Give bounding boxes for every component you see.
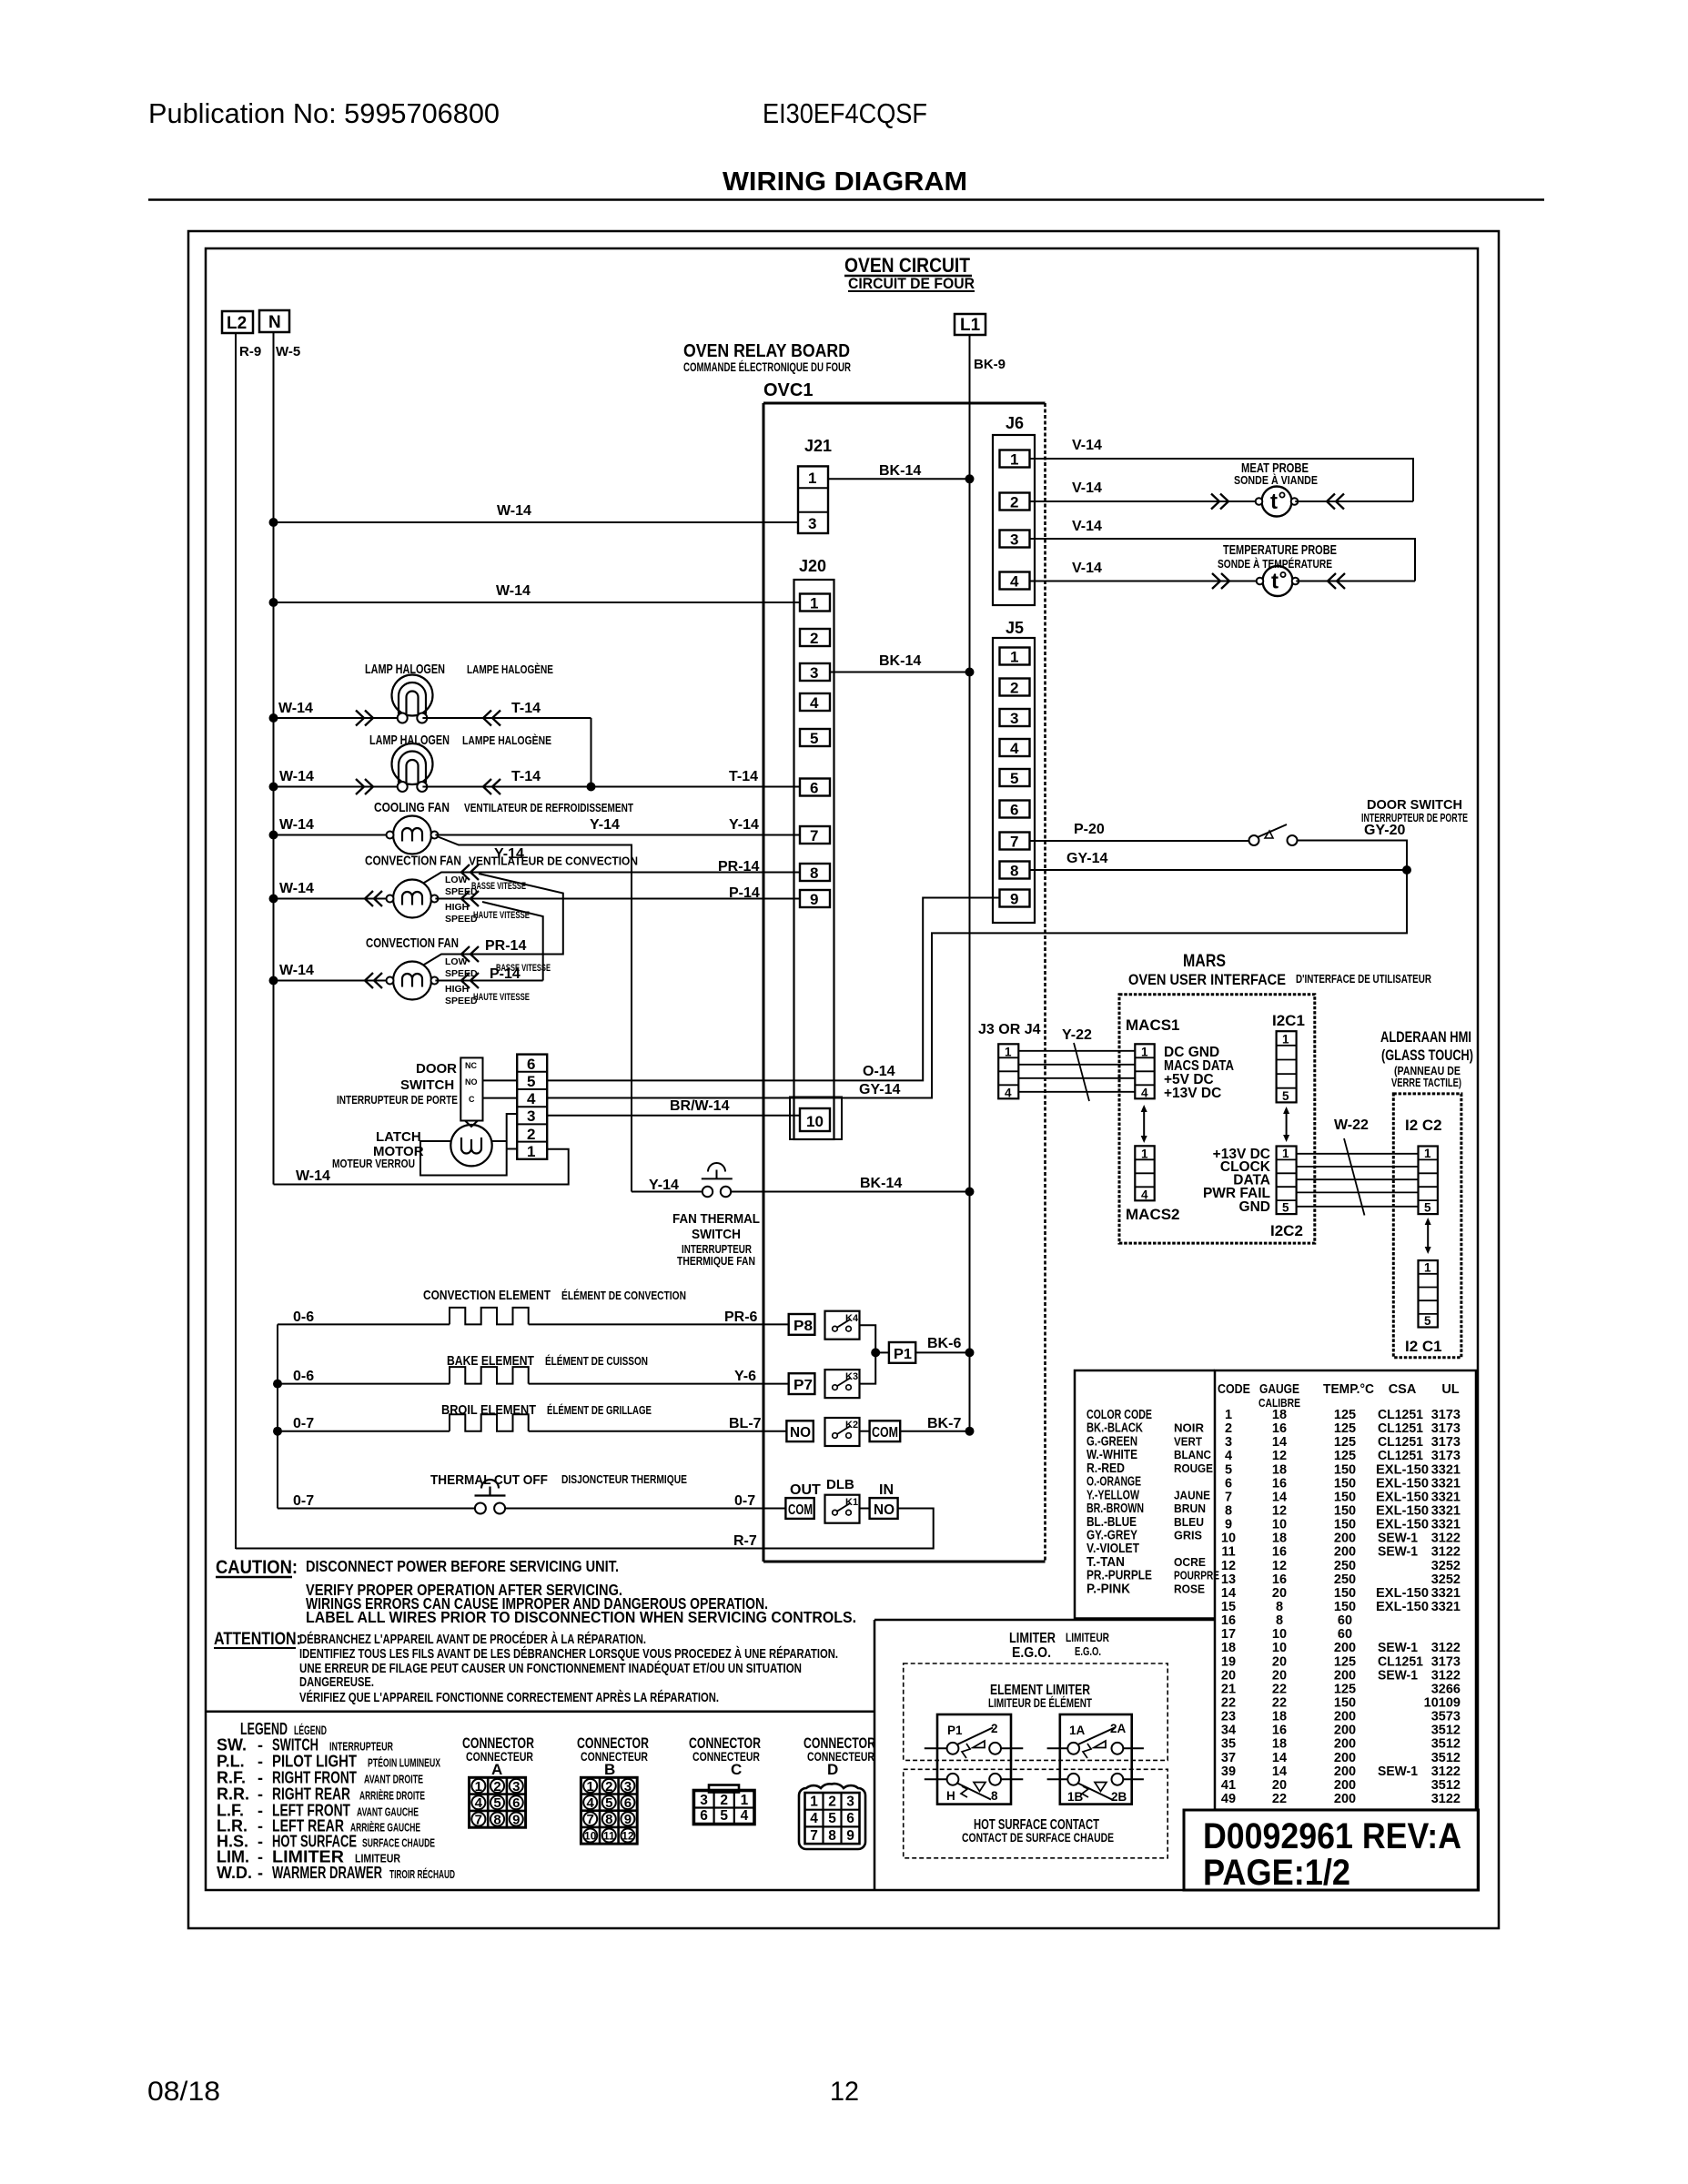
connector B	[577, 1734, 649, 1844]
svg-text:P1: P1	[947, 1724, 963, 1737]
connector J3/J4	[998, 1044, 1018, 1099]
svg-text:10109: 10109	[1424, 1696, 1461, 1711]
svg-text:K2: K2	[845, 1420, 858, 1431]
svg-text:3: 3	[527, 1107, 535, 1125]
svg-text:LIMITER: LIMITER	[1009, 1631, 1056, 1646]
svg-text:CAUTION:: CAUTION:	[216, 1557, 298, 1578]
svg-text:8: 8	[1225, 1504, 1232, 1519]
svg-text:ROUGE: ROUGE	[1174, 1462, 1213, 1475]
svg-text:Y-22: Y-22	[1062, 1027, 1092, 1043]
svg-text:3266: 3266	[1431, 1682, 1461, 1696]
svg-text:W-22: W-22	[1334, 1117, 1369, 1133]
svg-text:GAUGE: GAUGE	[1259, 1382, 1299, 1397]
connector J20	[790, 557, 842, 1139]
svg-text:200: 200	[1334, 1778, 1356, 1793]
svg-text:EXL-150: EXL-150	[1376, 1476, 1429, 1491]
svg-text:VENTILATEUR DE CONVECTION: VENTILATEUR DE CONVECTION	[469, 854, 638, 868]
svg-text:3: 3	[1010, 531, 1018, 549]
svg-text:22: 22	[1272, 1696, 1287, 1711]
svg-text:DLB: DLB	[826, 1477, 854, 1492]
bake element	[278, 1367, 789, 1384]
svg-text:COOLING FAN: COOLING FAN	[374, 800, 450, 815]
svg-text:1: 1	[527, 1143, 535, 1160]
svg-text:BK-14: BK-14	[860, 1176, 902, 1191]
svg-text:2: 2	[1010, 494, 1018, 511]
svg-text:3122: 3122	[1431, 1792, 1461, 1806]
svg-text:150: 150	[1334, 1462, 1356, 1477]
svg-text:CSA: CSA	[1389, 1382, 1417, 1397]
svg-text:3122: 3122	[1431, 1668, 1461, 1683]
legend	[217, 1720, 455, 1882]
svg-text:P.L.: P.L.	[217, 1753, 245, 1771]
svg-text:BL.-BLUE: BL.-BLUE	[1087, 1515, 1137, 1530]
svg-text:250: 250	[1334, 1559, 1356, 1573]
svg-text:150: 150	[1334, 1490, 1356, 1504]
svg-text:L2: L2	[227, 314, 247, 333]
svg-text:3122: 3122	[1431, 1641, 1461, 1655]
svg-text:3173: 3173	[1431, 1654, 1461, 1669]
ALDERAAN HMI labels	[1380, 1028, 1473, 1089]
svg-text:200: 200	[1334, 1724, 1356, 1738]
svg-text:150: 150	[1334, 1600, 1356, 1614]
svg-text:6: 6	[512, 1795, 520, 1811]
svg-text:34: 34	[1221, 1724, 1236, 1738]
svg-text:200: 200	[1334, 1668, 1356, 1683]
svg-text:16: 16	[1272, 1572, 1287, 1587]
svg-text:125: 125	[1334, 1449, 1356, 1463]
svg-text:20: 20	[1272, 1654, 1287, 1669]
fan thermal switch	[632, 1163, 975, 1197]
svg-text:9: 9	[1225, 1518, 1232, 1532]
svg-text:3573: 3573	[1431, 1710, 1461, 1724]
svg-text:10: 10	[1272, 1518, 1287, 1532]
svg-text:5: 5	[1225, 1462, 1232, 1477]
svg-text:J20: J20	[799, 557, 826, 575]
svg-text:3: 3	[512, 1779, 520, 1795]
node L2	[222, 311, 253, 333]
svg-text:SURFACE CHAUDE: SURFACE CHAUDE	[362, 1836, 435, 1850]
svg-text:5: 5	[1282, 1201, 1289, 1215]
svg-text:5: 5	[828, 1811, 836, 1826]
svg-text:NO: NO	[874, 1502, 895, 1518]
svg-text:5: 5	[810, 730, 818, 747]
svg-text:20: 20	[1272, 1586, 1287, 1601]
svg-text:3321: 3321	[1431, 1476, 1461, 1491]
svg-text:LOW: LOW	[445, 875, 468, 885]
svg-text:4: 4	[1010, 573, 1019, 591]
svg-text:16: 16	[1272, 1476, 1287, 1491]
svg-text:H: H	[946, 1789, 955, 1803]
connector I2C2 (HMI)	[1419, 1147, 1438, 1215]
svg-text:W-14: W-14	[496, 583, 531, 599]
svg-text:I2C1: I2C1	[1272, 1012, 1305, 1029]
svg-text:CL1251: CL1251	[1378, 1654, 1423, 1669]
svg-text:3122: 3122	[1431, 1545, 1461, 1560]
svg-text:12: 12	[1272, 1504, 1287, 1519]
document number box	[1184, 1810, 1479, 1893]
door connector 6pin	[517, 1055, 547, 1160]
svg-text:OVEN CIRCUIT: OVEN CIRCUIT	[844, 254, 970, 277]
svg-text:NO: NO	[790, 1425, 811, 1441]
wire Y-14 branch to fan thermal switch	[437, 836, 632, 1192]
svg-text:DÉBRANCHEZ L'APPAREIL AVANT DE: DÉBRANCHEZ L'APPAREIL AVANT DE PROCÉDER …	[299, 1632, 646, 1647]
svg-text:14: 14	[1272, 1490, 1287, 1504]
svg-text:PR.-PURPLE: PR.-PURPLE	[1087, 1569, 1152, 1583]
svg-text:1: 1	[475, 1779, 482, 1795]
svg-text:3321: 3321	[1431, 1518, 1461, 1532]
svg-text:POURPRE: POURPRE	[1174, 1570, 1219, 1582]
svg-text:22: 22	[1221, 1696, 1236, 1711]
svg-text:AVANT GAUCHE: AVANT GAUCHE	[357, 1805, 419, 1819]
wire V-14 J6 pin1 loop	[1030, 438, 1414, 501]
svg-text:1B: 1B	[1067, 1790, 1084, 1804]
svg-text:150: 150	[1334, 1504, 1356, 1519]
color code list	[1087, 1408, 1219, 1596]
wire gauge table	[1075, 1370, 1476, 1810]
svg-text:2B: 2B	[1111, 1790, 1127, 1804]
limiter relay box right	[1060, 1714, 1132, 1805]
svg-text:2: 2	[493, 1779, 500, 1795]
arrow I2C1-I2C2	[1283, 1107, 1289, 1142]
wire GY-14 routing to door connector pin4	[547, 870, 1407, 1098]
wire NO to pin5	[483, 1079, 518, 1081]
svg-text:11: 11	[603, 1829, 615, 1842]
svg-text:EI30EF4CQSF: EI30EF4CQSF	[763, 97, 927, 129]
svg-text:200: 200	[1334, 1710, 1356, 1724]
svg-text:PR-6: PR-6	[724, 1309, 758, 1325]
svg-text:OCRE: OCRE	[1174, 1556, 1206, 1569]
svg-text:BROIL ELEMENT: BROIL ELEMENT	[441, 1402, 536, 1418]
svg-text:OVC1: OVC1	[763, 380, 813, 400]
svg-text:9: 9	[512, 1812, 520, 1827]
svg-text:GY-14: GY-14	[1066, 851, 1107, 866]
svg-text:HAUTE VITESSE: HAUTE VITESSE	[473, 992, 530, 1003]
limiter relay box left	[937, 1714, 1011, 1805]
I2C2 pin labels	[1203, 1147, 1271, 1215]
svg-text:G.-GREEN: G.-GREEN	[1087, 1434, 1137, 1449]
junction + P1 + BK-6	[871, 1336, 974, 1363]
svg-text:1: 1	[1010, 451, 1018, 469]
svg-text:6: 6	[700, 1808, 708, 1824]
svg-text:3: 3	[810, 664, 818, 682]
svg-text:CONNECTEUR: CONNECTEUR	[692, 1749, 760, 1764]
oven relay board label	[683, 341, 851, 400]
svg-text:125: 125	[1334, 1435, 1356, 1450]
svg-text:BK.-BLACK: BK.-BLACK	[1087, 1421, 1143, 1436]
svg-text:EXL-150: EXL-150	[1376, 1490, 1429, 1504]
svg-text:CONVECTION FAN: CONVECTION FAN	[366, 935, 459, 951]
svg-text:SWITCH: SWITCH	[692, 1227, 741, 1242]
svg-text:18: 18	[1272, 1737, 1287, 1752]
svg-text:DISCONNECT POWER BEFORE SERVIC: DISCONNECT POWER BEFORE SERVICING UNIT.	[306, 1557, 619, 1575]
svg-text:3: 3	[1225, 1435, 1232, 1450]
limiter labels	[1009, 1630, 1109, 1661]
svg-text:1: 1	[808, 470, 816, 487]
svg-text:LAMPE HALOGÈNE: LAMPE HALOGÈNE	[462, 733, 551, 747]
svg-text:+13V DC: +13V DC	[1164, 1086, 1221, 1101]
svg-text:17: 17	[1221, 1627, 1236, 1642]
svg-text:150: 150	[1334, 1696, 1356, 1711]
svg-text:SWITCH: SWITCH	[272, 1736, 318, 1754]
svg-text:-: -	[258, 1785, 263, 1804]
svg-text:2: 2	[527, 1126, 535, 1143]
svg-text:1: 1	[810, 1794, 818, 1809]
svg-text:FAN THERMAL: FAN THERMAL	[672, 1211, 760, 1227]
svg-text:49: 49	[1221, 1792, 1236, 1806]
svg-text:K3: K3	[845, 1371, 858, 1382]
svg-text:18: 18	[1272, 1408, 1287, 1422]
wire BK-14 J20 pin3 to L1 rail	[830, 653, 975, 677]
svg-text:W-14: W-14	[279, 817, 314, 833]
svg-text:3122: 3122	[1431, 1764, 1461, 1779]
HMI glass touch box	[1393, 1094, 1461, 1358]
svg-text:08/18: 08/18	[147, 2077, 220, 2107]
convection fan 1	[269, 859, 801, 925]
svg-text:LOW: LOW	[445, 956, 468, 967]
svg-text:CL1251: CL1251	[1378, 1435, 1423, 1450]
svg-text:7: 7	[475, 1812, 482, 1827]
svg-text:SEW-1: SEW-1	[1378, 1668, 1418, 1683]
svg-text:VENTILATEUR DE REFROIDISSEMENT: VENTILATEUR DE REFROIDISSEMENT	[464, 801, 633, 814]
svg-text:V-14: V-14	[1072, 561, 1102, 576]
connector J21	[798, 437, 832, 533]
svg-text:6: 6	[1010, 802, 1018, 819]
svg-text:150: 150	[1334, 1586, 1356, 1601]
svg-text:Y-6: Y-6	[734, 1369, 756, 1384]
svg-text:8: 8	[991, 1789, 998, 1803]
svg-text:PR-14: PR-14	[718, 859, 759, 875]
svg-text:2: 2	[720, 1793, 728, 1808]
svg-text:IDENTIFIEZ TOUS LES FILS AVANT: IDENTIFIEZ TOUS LES FILS AVANT DE LES DÉ…	[299, 1646, 838, 1662]
svg-text:IN: IN	[879, 1482, 894, 1498]
svg-text:N: N	[268, 313, 281, 332]
svg-text:125: 125	[1334, 1421, 1356, 1436]
svg-text:P7: P7	[793, 1378, 813, 1393]
svg-text:Publication No: 5995706800: Publication No: 5995706800	[148, 97, 500, 129]
svg-text:250: 250	[1334, 1572, 1356, 1587]
svg-text:Y-14: Y-14	[729, 817, 759, 833]
svg-text:1: 1	[587, 1779, 594, 1795]
svg-text:T-14: T-14	[729, 769, 758, 784]
svg-text:21: 21	[1221, 1682, 1236, 1696]
svg-text:3512: 3512	[1431, 1737, 1461, 1752]
svg-text:BK-14: BK-14	[879, 653, 921, 669]
svg-text:2: 2	[1010, 680, 1018, 697]
svg-text:SEW-1: SEW-1	[1378, 1764, 1418, 1779]
svg-text:3122: 3122	[1431, 1532, 1461, 1546]
svg-text:ROSE: ROSE	[1174, 1582, 1205, 1595]
svg-text:41: 41	[1221, 1778, 1236, 1793]
svg-text:COM: COM	[788, 1502, 813, 1518]
svg-text:COMMANDE ÉLECTRONIQUE DU FOUR: COMMANDE ÉLECTRONIQUE DU FOUR	[683, 359, 851, 374]
svg-text:C: C	[469, 1095, 475, 1104]
oven relay board box OVC1	[763, 403, 1046, 1562]
svg-text:5: 5	[1282, 1089, 1289, 1103]
svg-text:GY-20: GY-20	[1364, 823, 1405, 838]
svg-text:OUT: OUT	[790, 1482, 821, 1498]
svg-text:Y-14: Y-14	[590, 817, 620, 833]
svg-text:W-14: W-14	[296, 1168, 330, 1184]
svg-text:BK-6: BK-6	[927, 1336, 961, 1351]
svg-text:INTERRUPTEUR DE PORTE: INTERRUPTEUR DE PORTE	[337, 1093, 458, 1107]
svg-text:RIGHT REAR: RIGHT REAR	[272, 1785, 350, 1804]
wire V-14 J6 pin3 loop	[1030, 519, 1416, 581]
svg-text:8: 8	[493, 1812, 500, 1827]
svg-text:1: 1	[1005, 1046, 1012, 1059]
svg-text:6: 6	[624, 1795, 632, 1811]
connector I2C1 (HMI)	[1419, 1260, 1438, 1328]
svg-text:R.F.: R.F.	[217, 1769, 246, 1787]
svg-text:1: 1	[1141, 1046, 1148, 1059]
svg-text:EXL-150: EXL-150	[1376, 1600, 1429, 1614]
svg-text:60: 60	[1338, 1613, 1352, 1628]
limiter contact H-8	[925, 1774, 1024, 1803]
svg-text:EXL-150: EXL-150	[1376, 1518, 1429, 1532]
svg-text:5: 5	[527, 1073, 535, 1090]
svg-text:ÉLÉMENT DE GRILLAGE: ÉLÉMENT DE GRILLAGE	[547, 1403, 652, 1417]
svg-text:2: 2	[991, 1722, 998, 1735]
svg-text:LAMPE HALOGÈNE: LAMPE HALOGÈNE	[467, 662, 553, 676]
svg-text:4: 4	[1005, 1087, 1012, 1100]
svg-text:HIGH: HIGH	[445, 984, 469, 995]
svg-text:4: 4	[1010, 740, 1019, 757]
svg-text:BK-14: BK-14	[879, 463, 921, 479]
arrow MACS1-MACS2	[1141, 1105, 1147, 1143]
oven circuit title	[844, 254, 975, 292]
svg-text:150: 150	[1334, 1476, 1356, 1491]
svg-text:14: 14	[1272, 1764, 1287, 1779]
svg-text:CL1251: CL1251	[1378, 1421, 1423, 1436]
svg-text:7: 7	[810, 1828, 818, 1844]
thermal cut off	[278, 1480, 785, 1514]
svg-text:W-5: W-5	[276, 344, 300, 359]
svg-text:10: 10	[1272, 1641, 1287, 1655]
wire GY-20 to junction	[1298, 841, 1408, 871]
wire T-14 lamp1 to lamp2 row	[591, 718, 592, 787]
svg-text:1: 1	[741, 1793, 749, 1808]
wire V-14 J6 pin2	[1030, 480, 1259, 510]
svg-text:SEW-1: SEW-1	[1378, 1532, 1418, 1546]
svg-text:C: C	[731, 1761, 742, 1778]
wire W-14 door connector pin1 loop	[274, 1149, 569, 1185]
svg-text:8: 8	[1276, 1600, 1283, 1614]
svg-text:LAMP HALOGEN: LAMP HALOGEN	[369, 733, 450, 748]
svg-text:12: 12	[830, 2077, 859, 2107]
relay K4 + P8	[789, 1311, 876, 1353]
svg-text:P.-PINK: P.-PINK	[1087, 1582, 1130, 1596]
svg-text:SW.: SW.	[217, 1736, 247, 1754]
svg-text:0-7: 0-7	[734, 1493, 755, 1509]
svg-text:LABEL ALL WIRES PRIOR TO DISCO: LABEL ALL WIRES PRIOR TO DISCONNECTION W…	[306, 1608, 856, 1626]
svg-text:16: 16	[1272, 1724, 1287, 1738]
svg-text:9: 9	[624, 1812, 632, 1827]
wire C to pin4	[483, 1097, 518, 1099]
svg-text:-: -	[258, 1736, 263, 1754]
svg-text:W-14: W-14	[278, 701, 313, 716]
svg-text:SEW-1: SEW-1	[1378, 1641, 1418, 1655]
svg-text:J21: J21	[804, 437, 832, 455]
svg-text:10: 10	[806, 1113, 824, 1130]
svg-text:6: 6	[810, 780, 818, 797]
svg-text:SONDE À VIANDE: SONDE À VIANDE	[1234, 473, 1318, 487]
svg-text:3252: 3252	[1431, 1572, 1461, 1587]
svg-text:9: 9	[846, 1828, 854, 1844]
svg-text:1: 1	[1424, 1261, 1431, 1275]
svg-text:4: 4	[1141, 1188, 1148, 1202]
svg-text:39: 39	[1221, 1764, 1236, 1779]
svg-text:BR/W-14: BR/W-14	[670, 1098, 730, 1114]
connector C	[689, 1734, 761, 1825]
svg-text:11: 11	[1221, 1545, 1235, 1560]
hot surface dashed box	[904, 1769, 1167, 1858]
lamp halogen 1	[269, 675, 591, 726]
svg-text:16: 16	[1221, 1613, 1236, 1628]
svg-text:TEMPERATURE PROBE: TEMPERATURE PROBE	[1223, 542, 1337, 558]
svg-text:18: 18	[1272, 1710, 1287, 1724]
wire L1/BK-9 rail down	[969, 335, 971, 1431]
connector I2C1 (MARS)	[1272, 1012, 1305, 1103]
svg-text:P8: P8	[793, 1319, 813, 1334]
svg-text:200: 200	[1334, 1532, 1356, 1546]
svg-text:3321: 3321	[1431, 1504, 1461, 1519]
svg-text:W.D.: W.D.	[217, 1864, 252, 1882]
svg-text:W.-WHITE: W.-WHITE	[1087, 1448, 1137, 1462]
door switch	[1249, 823, 1406, 845]
svg-text:6: 6	[1225, 1476, 1232, 1491]
svg-text:Y.-YELLOW: Y.-YELLOW	[1087, 1488, 1139, 1502]
svg-text:10: 10	[1221, 1532, 1236, 1546]
MARS titles	[1128, 952, 1431, 988]
svg-text:DISJONCTEUR THERMIQUE: DISJONCTEUR THERMIQUE	[561, 1472, 687, 1486]
caution block	[216, 1557, 856, 1626]
svg-text:1: 1	[1424, 1147, 1431, 1160]
svg-text:WIRING DIAGRAM: WIRING DIAGRAM	[723, 167, 967, 197]
svg-text:6: 6	[846, 1811, 854, 1826]
svg-text:UNE ERREUR DE FILAGE PEUT CAUS: UNE ERREUR DE FILAGE PEUT CAUSER UN FONC…	[299, 1661, 802, 1676]
svg-text:J3 OR J4: J3 OR J4	[978, 1022, 1041, 1037]
svg-text:0-6: 0-6	[293, 1369, 314, 1384]
svg-text:1: 1	[1282, 1147, 1289, 1160]
wire P-14 to fan2 high	[482, 902, 543, 981]
MACS1 pin labels	[1164, 1045, 1234, 1101]
svg-text:5: 5	[1424, 1201, 1431, 1215]
svg-text:JAUNE: JAUNE	[1174, 1489, 1210, 1501]
svg-text:W-14: W-14	[497, 503, 531, 519]
svg-text:GY-14: GY-14	[859, 1082, 900, 1097]
svg-text:7: 7	[1010, 834, 1018, 851]
attention block	[214, 1630, 838, 1705]
svg-text:OVEN USER INTERFACE: OVEN USER INTERFACE	[1128, 971, 1286, 988]
svg-text:8: 8	[1276, 1613, 1283, 1628]
svg-text:VÉRIFIEZ QUE L'APPAREIL FONCTI: VÉRIFIEZ QUE L'APPAREIL FONCTIONNE CORRE…	[299, 1690, 719, 1705]
svg-text:150: 150	[1334, 1518, 1356, 1532]
svg-text:VERT: VERT	[1174, 1435, 1202, 1448]
svg-text:CIRCUIT DE FOUR: CIRCUIT DE FOUR	[848, 275, 975, 292]
svg-text:OVEN RELAY BOARD: OVEN RELAY BOARD	[683, 341, 850, 361]
DLB relay K1	[785, 1477, 897, 1523]
svg-text:GND: GND	[1239, 1199, 1270, 1215]
svg-text:INTERRUPTEUR: INTERRUPTEUR	[329, 1740, 393, 1754]
wire W-5 rail from N down	[273, 332, 275, 1185]
lamp halogen 2	[269, 743, 801, 794]
wire R-9 rail from L2 down	[235, 333, 237, 1549]
svg-text:BL-7: BL-7	[729, 1416, 762, 1431]
svg-text:200: 200	[1334, 1641, 1356, 1655]
svg-text:R-7: R-7	[733, 1533, 757, 1549]
svg-text:7: 7	[810, 827, 818, 844]
svg-text:60: 60	[1338, 1627, 1352, 1642]
svg-text:PILOT LIGHT: PILOT LIGHT	[272, 1753, 357, 1771]
